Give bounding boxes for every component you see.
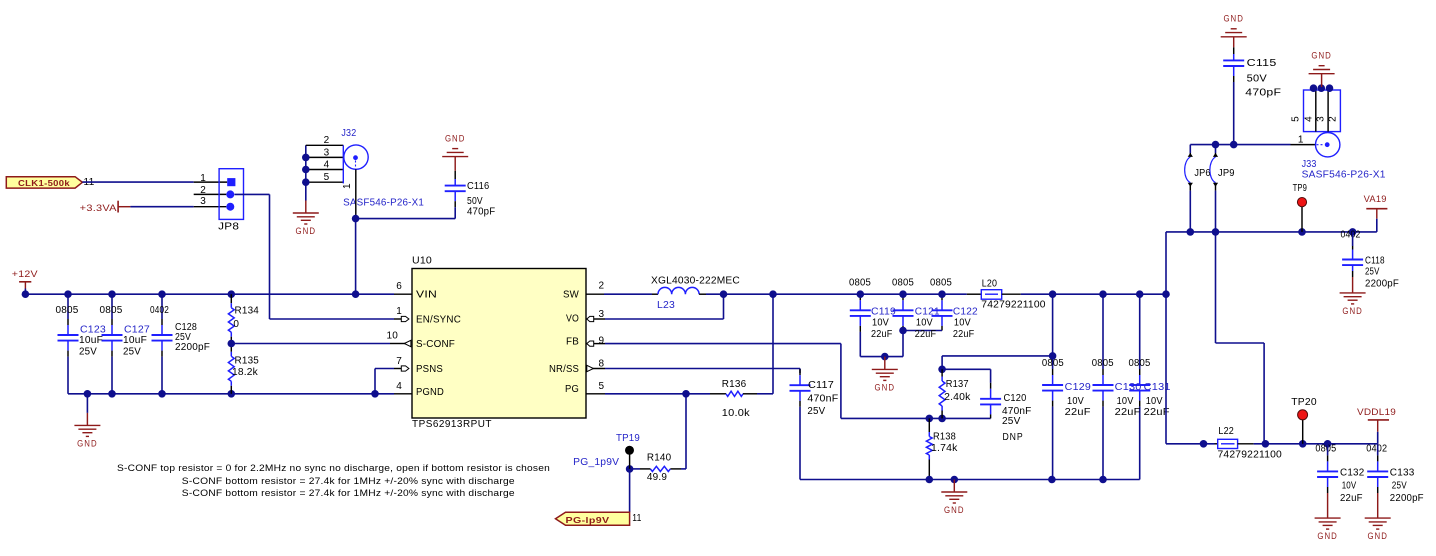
svg-text:PG-lp9V: PG-lp9V — [566, 515, 610, 525]
svg-text:25V: 25V — [79, 347, 97, 358]
svg-text:TP9: TP9 — [1293, 183, 1308, 194]
svg-text:3: 3 — [1316, 116, 1327, 122]
svg-text:GND: GND — [1223, 14, 1244, 24]
svg-text:C132: C132 — [1340, 468, 1365, 479]
svg-text:S-CONF top resistor = 0 for 2.: S-CONF top resistor = 0 for 2.2MHz no sy… — [117, 463, 550, 474]
svg-text:10V: 10V — [872, 317, 889, 328]
svg-text:0805: 0805 — [1129, 358, 1151, 369]
svg-text:C120: C120 — [1004, 393, 1027, 404]
svg-text:470pF: 470pF — [1245, 87, 1281, 98]
svg-text:10.0k: 10.0k — [722, 408, 751, 419]
svg-text:C117: C117 — [808, 380, 834, 391]
svg-text:R134: R134 — [235, 305, 260, 316]
svg-text:VO: VO — [566, 314, 579, 325]
svg-text:TP19: TP19 — [616, 433, 640, 444]
svg-text:1.74k: 1.74k — [931, 443, 958, 454]
svg-text:C133: C133 — [1390, 468, 1415, 479]
svg-text:0805: 0805 — [892, 277, 914, 288]
svg-text:R140: R140 — [647, 452, 672, 463]
svg-text:74279221100: 74279221100 — [981, 300, 1046, 311]
svg-text:JP6: JP6 — [1194, 168, 1211, 179]
svg-text:1: 1 — [342, 183, 353, 189]
svg-text:GND: GND — [296, 226, 317, 236]
svg-text:25V: 25V — [807, 406, 825, 417]
svg-text:GND: GND — [1317, 531, 1338, 541]
svg-text:7: 7 — [396, 356, 402, 367]
svg-text:GND: GND — [1342, 306, 1363, 316]
svg-text:VIN: VIN — [416, 290, 437, 301]
svg-text:FB: FB — [566, 337, 579, 348]
svg-text:L23: L23 — [657, 300, 675, 311]
svg-text:S-CONF bottom resistor = 27.4k: S-CONF bottom resistor = 27.4k for 1MHz … — [182, 476, 515, 487]
svg-text:U10: U10 — [412, 256, 432, 267]
svg-text:VDDL19: VDDL19 — [1357, 407, 1396, 417]
svg-text:GND: GND — [445, 133, 466, 143]
svg-text:JP8: JP8 — [218, 222, 239, 233]
svg-text:PSNS: PSNS — [416, 364, 443, 375]
svg-text:C129: C129 — [1065, 382, 1092, 393]
svg-text:JP9: JP9 — [1218, 168, 1235, 179]
svg-text:22uF: 22uF — [915, 329, 937, 340]
svg-text:SW: SW — [563, 290, 579, 301]
svg-text:10V: 10V — [1146, 396, 1163, 407]
svg-text:+3.3VA: +3.3VA — [80, 203, 117, 213]
svg-text:10V: 10V — [1067, 396, 1084, 407]
svg-text:R138: R138 — [933, 432, 956, 443]
svg-text:2: 2 — [1328, 116, 1339, 122]
svg-text:L22: L22 — [1218, 426, 1234, 437]
svg-text:C119: C119 — [871, 306, 896, 317]
svg-text:470nF: 470nF — [807, 394, 838, 405]
svg-text:6: 6 — [396, 281, 402, 292]
svg-text:C130: C130 — [1115, 382, 1142, 393]
svg-text:2: 2 — [599, 281, 605, 292]
svg-text:C115: C115 — [1247, 58, 1277, 69]
svg-text:0805: 0805 — [1092, 358, 1114, 369]
svg-text:C116: C116 — [467, 181, 490, 192]
svg-text:GND: GND — [1311, 50, 1332, 60]
svg-text:0805: 0805 — [1315, 444, 1336, 455]
svg-text:0: 0 — [233, 319, 239, 330]
svg-text:74279221100: 74279221100 — [1218, 449, 1283, 460]
svg-text:NR/SS: NR/SS — [549, 364, 579, 375]
svg-text:VA19: VA19 — [1364, 194, 1387, 204]
svg-text:DNP: DNP — [1003, 432, 1024, 443]
svg-text:25V: 25V — [1002, 416, 1021, 427]
svg-text:J33: J33 — [1302, 159, 1317, 170]
svg-text:C121: C121 — [915, 306, 940, 317]
svg-text:EN/SYNC: EN/SYNC — [416, 315, 461, 326]
svg-text:0805: 0805 — [100, 305, 123, 316]
svg-text:PGND: PGND — [416, 387, 444, 398]
svg-text:50V: 50V — [467, 196, 483, 207]
svg-text:0805: 0805 — [930, 277, 952, 288]
svg-text:PG: PG — [565, 384, 579, 395]
svg-text:0805: 0805 — [849, 277, 871, 288]
svg-text:10: 10 — [386, 331, 398, 342]
svg-text:C127: C127 — [124, 324, 150, 335]
svg-text:0402: 0402 — [150, 305, 169, 316]
svg-text:22uF: 22uF — [1340, 493, 1363, 504]
svg-text:0805: 0805 — [56, 305, 79, 316]
svg-text:R136: R136 — [722, 379, 747, 390]
svg-text:2: 2 — [324, 135, 330, 146]
svg-text:470pF: 470pF — [467, 207, 495, 218]
svg-text:18.2k: 18.2k — [232, 367, 259, 378]
svg-text:1: 1 — [200, 173, 206, 184]
svg-text:50V: 50V — [1247, 73, 1267, 84]
svg-text:1: 1 — [396, 306, 402, 317]
svg-text:3: 3 — [200, 196, 206, 207]
svg-text:GND: GND — [77, 438, 98, 448]
svg-text:TPS62913RPUT: TPS62913RPUT — [412, 419, 492, 430]
svg-text:2200pF: 2200pF — [175, 342, 210, 353]
svg-text:GND: GND — [875, 382, 896, 392]
svg-text:2200pF: 2200pF — [1365, 278, 1399, 289]
svg-text:49.9: 49.9 — [647, 472, 667, 483]
svg-text:4: 4 — [1304, 116, 1315, 122]
svg-text:S-CONF bottom resistor = 27.4k: S-CONF bottom resistor = 27.4k for 1MHz … — [182, 488, 515, 499]
svg-text:S-CONF: S-CONF — [416, 339, 455, 350]
svg-text:L20: L20 — [982, 279, 998, 290]
svg-text:22uF: 22uF — [1065, 407, 1091, 418]
svg-text:10V: 10V — [954, 317, 971, 328]
svg-text:4: 4 — [324, 159, 330, 170]
svg-text:9: 9 — [599, 336, 605, 347]
svg-text:11: 11 — [632, 513, 641, 524]
svg-text:1: 1 — [1298, 135, 1304, 146]
svg-text:10V: 10V — [1342, 480, 1357, 491]
svg-text:10V: 10V — [1117, 396, 1134, 407]
svg-text:25V: 25V — [1392, 480, 1407, 491]
svg-text:0805: 0805 — [1042, 358, 1064, 369]
svg-text:J32: J32 — [341, 128, 356, 139]
svg-text:GND: GND — [1367, 531, 1388, 541]
svg-text:22uF: 22uF — [953, 329, 975, 340]
svg-text:5: 5 — [599, 381, 605, 392]
svg-text:XGL4030-222MEC: XGL4030-222MEC — [651, 275, 740, 286]
svg-text:4: 4 — [396, 381, 402, 392]
svg-text:10uF: 10uF — [79, 335, 103, 346]
svg-text:10uF: 10uF — [123, 335, 147, 346]
svg-text:C123: C123 — [80, 324, 106, 335]
svg-text:+12V: +12V — [12, 269, 38, 279]
svg-text:25V: 25V — [1365, 267, 1380, 278]
svg-text:2200pF: 2200pF — [1390, 493, 1424, 504]
svg-text:5: 5 — [324, 172, 330, 183]
svg-text:22uF: 22uF — [871, 329, 893, 340]
svg-text:5: 5 — [1291, 116, 1302, 122]
svg-text:25V: 25V — [123, 347, 141, 358]
svg-text:TP20: TP20 — [1291, 397, 1317, 408]
svg-text:R137: R137 — [946, 379, 969, 390]
svg-text:PG_1p9V: PG_1p9V — [573, 457, 619, 468]
svg-text:2: 2 — [200, 185, 206, 196]
svg-text:22uF: 22uF — [1115, 407, 1141, 418]
svg-text:C118: C118 — [1365, 255, 1385, 266]
svg-text:SASF546-P26-X1: SASF546-P26-X1 — [1302, 170, 1386, 181]
svg-text:GND: GND — [944, 505, 965, 515]
svg-text:C131: C131 — [1144, 382, 1171, 393]
svg-text:C122: C122 — [953, 306, 978, 317]
svg-text:CLK1-500k: CLK1-500k — [18, 178, 70, 188]
svg-text:0402: 0402 — [1341, 230, 1361, 241]
svg-text:R135: R135 — [235, 356, 260, 367]
svg-text:10V: 10V — [916, 317, 933, 328]
svg-text:3: 3 — [599, 309, 605, 320]
svg-text:3: 3 — [324, 147, 330, 158]
svg-text:2.40k: 2.40k — [944, 392, 971, 403]
